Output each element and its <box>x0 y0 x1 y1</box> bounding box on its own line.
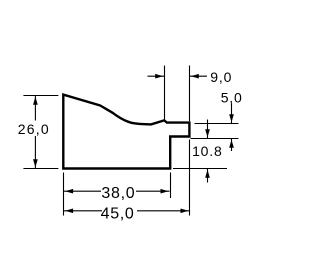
dim 26,0 vertical line upper segment <box>34 96 36 121</box>
svg-text:26,0: 26,0 <box>18 121 50 137</box>
ledge top extension line <box>195 123 239 125</box>
dim 5,0 upper line <box>231 104 233 124</box>
moulding profile outline <box>63 95 189 169</box>
dim 45,0 line left segment <box>64 210 102 212</box>
dim 10,8 lower line <box>207 169 209 183</box>
dim 38,0 line left segment <box>64 190 101 192</box>
svg-text:9,0: 9,0 <box>210 69 232 85</box>
dim 45,0 right extension line <box>189 140 191 216</box>
dim 9,0 right line <box>190 75 207 77</box>
svg-text:45,0: 45,0 <box>101 205 135 222</box>
svg-text:5,0: 5,0 <box>221 89 243 105</box>
dim 38,0 right extension line <box>170 173 172 199</box>
dim 9,0 left extension line <box>164 66 166 120</box>
dim 38,0 line right segment <box>136 190 170 192</box>
svg-text:38,0: 38,0 <box>101 185 135 202</box>
dim 9,0 left line <box>148 75 165 77</box>
dim 45,0 left arrowhead <box>65 208 73 213</box>
dim 38,0 left extension line <box>63 173 65 216</box>
dim 5,0 lower line <box>231 139 233 151</box>
ledge bottom extension line <box>191 138 239 140</box>
dim 26,0 vertical line lower segment <box>34 136 36 168</box>
bottom right extension line <box>173 168 227 170</box>
dim 9,0 left-pointing arrowhead <box>191 74 199 79</box>
dim 10,8 up arrowhead <box>205 170 210 178</box>
dim 26,0 down arrowhead <box>33 159 38 167</box>
dim 9,0 right-pointing arrowhead <box>155 74 163 79</box>
dim 45,0 right arrowhead <box>181 208 189 213</box>
dim 26,0 bottom extension line <box>23 168 58 170</box>
dim 26,0 top extension line <box>23 95 58 97</box>
dim 9,0 right extension line <box>189 66 191 122</box>
dim 38,0 right arrowhead <box>161 189 169 194</box>
dim 45,0 line right segment <box>137 210 190 212</box>
dim 38,0 left arrowhead <box>65 189 73 194</box>
dim 5,0 up arrowhead <box>229 140 234 148</box>
dim 10,8 upper line <box>207 120 209 139</box>
dim 26,0 up arrowhead <box>33 97 38 105</box>
dim 10,8 down arrowhead <box>205 129 210 137</box>
dim 5,0 down arrowhead <box>229 114 234 122</box>
svg-text:10.8: 10.8 <box>192 143 222 159</box>
